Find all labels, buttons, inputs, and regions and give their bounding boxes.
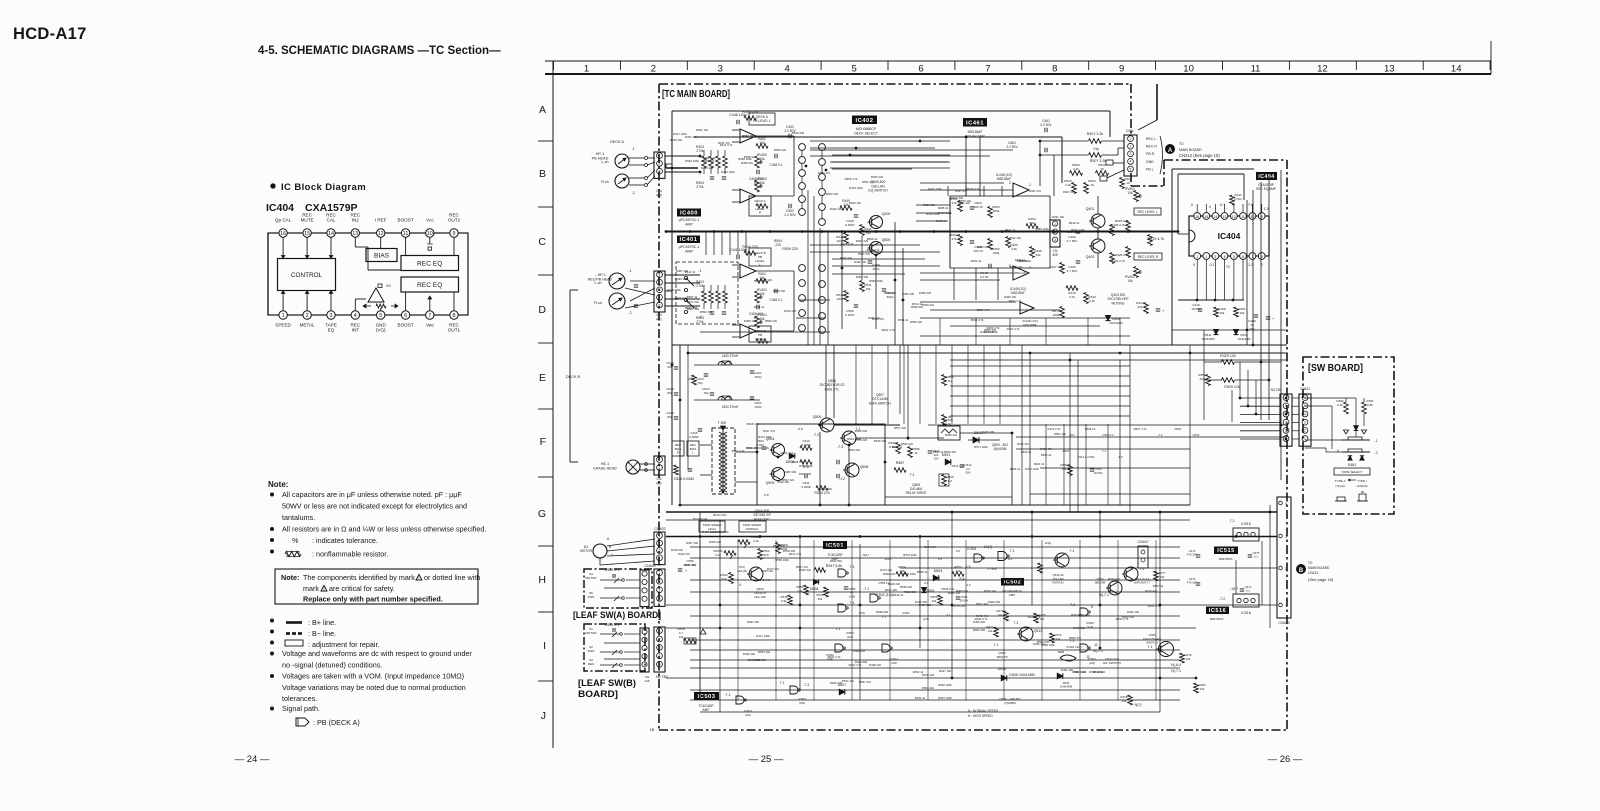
svg-text:R521 22k: R521 22k (842, 679, 855, 683)
svg-text:R507 4.7k: R507 4.7k (1134, 427, 1147, 431)
svg-text:R552 330: R552 330 (700, 310, 713, 314)
D502 diode (973, 437, 979, 443)
svg-text:D504: D504 (934, 569, 943, 573)
svg-text:4: 4 (739, 583, 741, 587)
IC516 label (1206, 607, 1229, 615)
R536 res (896, 443, 901, 454)
wire right section verticals (1039, 141, 1041, 186)
IC461 label (963, 118, 987, 127)
svg-text:-6.8: -6.8 (763, 493, 769, 497)
svg-text:0.0068: 0.0068 (801, 485, 811, 489)
C473 cap (1196, 582, 1201, 584)
svg-text:−: − (611, 562, 613, 566)
svg-text:G.4: G.4 (1008, 557, 1013, 561)
svg-text:2: 2 (306, 313, 309, 319)
svg-text:DOLBY AMP: DOLBY AMP (965, 134, 985, 138)
gate low1 (736, 696, 744, 704)
wire rail y628 (666, 627, 1196, 629)
svg-text:R519 330: R519 330 (783, 549, 796, 553)
svg-text:R500 330: R500 330 (855, 429, 868, 433)
svg-text:R527 47k: R527 47k (796, 565, 809, 569)
svg-text:FWD: FWD (588, 595, 596, 599)
marker A to main board (1166, 145, 1175, 154)
svg-text:PB R: PB R (1146, 152, 1155, 156)
R587 res (894, 468, 906, 473)
svg-text:10 50V: 10 50V (960, 599, 969, 603)
svg-text:R552 330: R552 330 (904, 590, 917, 594)
svg-text:Vcc: Vcc (426, 218, 434, 223)
R478 res (1004, 611, 1009, 621)
svg-text:R: R (677, 451, 679, 455)
grid ruler bottom line (545, 73, 1491, 75)
svg-text:D506 1N4148M: D506 1N4148M (1009, 673, 1034, 677)
svg-text:56p: 56p (667, 391, 672, 395)
svg-text:S481: S481 (1348, 463, 1356, 467)
svg-text:R597 100k: R597 100k (938, 696, 952, 700)
wire amp drops (705, 232, 707, 256)
svg-text:2: 2 (1205, 255, 1207, 259)
svg-text:R464 100k: R464 100k (980, 330, 994, 334)
svg-text:mark: mark (303, 584, 319, 593)
R530 res (692, 375, 697, 385)
svg-text:IC502: IC502 (1004, 580, 1021, 586)
R534c res (816, 486, 828, 491)
svg-text:R428 2.7k: R428 2.7k (1115, 253, 1130, 257)
svg-text:R545 4.7k: R545 4.7k (967, 187, 980, 191)
svg-text:R512 4.7k: R512 4.7k (732, 449, 745, 453)
svg-text:7.1: 7.1 (882, 615, 886, 619)
svg-text:10k: 10k (1127, 279, 1133, 283)
TC MAIN BOARD outline left (658, 84, 660, 730)
wire rail y712 (700, 711, 1160, 713)
Q507 transistor (842, 431, 856, 445)
svg-text:47k: 47k (952, 237, 957, 241)
svg-text:N(-7.1: N(-7.1 (1093, 649, 1103, 653)
svg-text:1: 1 (659, 629, 661, 633)
svg-text:1N4148M: 1N4148M (1060, 685, 1073, 689)
R559 res (1068, 465, 1073, 476)
head L-ch DECK B (609, 273, 625, 289)
wire CN400 out (665, 155, 700, 157)
svg-text:R509 220: R509 220 (782, 247, 798, 251)
C466b cap (1076, 260, 1081, 262)
svg-text:R432 10k: R432 10k (1127, 610, 1140, 614)
svg-text:D510: D510 (998, 667, 1007, 671)
svg-text:CN: CN (656, 189, 662, 193)
svg-text:R529 100k: R529 100k (715, 530, 729, 534)
svg-text:R553 10k: R553 10k (758, 650, 771, 654)
svg-text:No TB2: No TB2 (656, 675, 668, 679)
svg-text:-6.9: -6.9 (924, 581, 929, 585)
svg-text:C545 0.1: C545 0.1 (605, 623, 620, 627)
svg-text:F: F (540, 436, 546, 448)
gate mid2 (882, 644, 890, 652)
Q511 transistor (1055, 553, 1069, 567)
C522 cap (710, 392, 715, 394)
svg-text:T2: T2 (1226, 265, 1230, 269)
svg-text:C544 0.1: C544 0.1 (605, 568, 620, 572)
svg-text:R521 22k: R521 22k (958, 201, 971, 205)
marker B to main board (1297, 565, 1306, 574)
svg-text:2.2 50V: 2.2 50V (1006, 145, 1018, 149)
svg-text:R543 4.7k: R543 4.7k (758, 578, 771, 582)
wire rail y505 (680, 504, 1190, 506)
svg-text:R578 100k: R578 100k (902, 572, 916, 576)
leaf B links (624, 633, 640, 635)
REC EQ block upper (401, 256, 459, 271)
svg-text:3: 3 (718, 64, 723, 75)
D510 diode (1001, 675, 1007, 681)
R547 res (815, 568, 826, 573)
svg-text:R495 22k: R495 22k (761, 569, 774, 573)
R511 res (860, 281, 865, 292)
D507 diode (839, 689, 845, 695)
svg-text:R557 47k: R557 47k (859, 680, 872, 684)
connector CN5 (1124, 135, 1137, 176)
svg-text:C532 2.2: C532 2.2 (1102, 433, 1114, 437)
IC404 block op-amp (368, 288, 384, 302)
wire rail y678 (666, 677, 1196, 679)
svg-text:10k: 10k (1220, 311, 1225, 315)
svg-text:R546 220: R546 220 (774, 148, 787, 152)
IC503 label (694, 692, 719, 700)
svg-text:6.5: 6.5 (938, 557, 942, 561)
connector CN440 pair (640, 570, 649, 607)
svg-text:6.4: 6.4 (960, 577, 965, 581)
svg-text:R577 220: R577 220 (894, 426, 907, 430)
svg-text:R432 10k: R432 10k (854, 260, 867, 264)
svg-text:-1.2: -1.2 (1247, 263, 1253, 267)
svg-text:R584 1k: R584 1k (1010, 467, 1021, 471)
svg-text:4: 4 (659, 296, 661, 300)
svg-text:1: 1 (1029, 183, 1031, 187)
svg-text:R507 10k: R507 10k (687, 307, 700, 311)
svg-text:R590 22k: R590 22k (911, 305, 924, 309)
CONTROL block (278, 259, 336, 291)
R479 res (1180, 653, 1185, 663)
svg-text:C448 0.1: C448 0.1 (770, 298, 783, 302)
svg-text:47k: 47k (956, 569, 961, 573)
C536 cap (1090, 468, 1095, 470)
svg-text:G: G (538, 508, 546, 520)
RY400 relay (938, 426, 960, 440)
svg-text:R405 330: R405 330 (744, 319, 757, 323)
R465 res (1006, 237, 1011, 248)
svg-text:R594 220: R594 220 (1014, 271, 1027, 275)
C408b cap (854, 214, 859, 216)
svg-text:MOTOR: MOTOR (585, 631, 597, 635)
wire mesh top c (916, 204, 950, 206)
CN447 connector (1138, 546, 1148, 568)
svg-text:R407 220: R407 220 (1074, 670, 1087, 674)
C561 cap (1044, 148, 1046, 153)
svg-text:R483 330: R483 330 (784, 470, 797, 474)
svg-text:11: 11 (1086, 655, 1090, 659)
svg-text:8.2: 8.2 (948, 479, 953, 483)
svg-text:3: 3 (659, 170, 661, 174)
svg-text:R587: R587 (896, 461, 905, 465)
connector CN440 tall (1277, 497, 1291, 618)
svg-text:50V: 50V (965, 471, 970, 475)
junction dots (689, 230, 692, 233)
svg-text:R598 1k: R598 1k (744, 155, 755, 159)
svg-text:8: 8 (453, 313, 456, 319)
svg-text:D: D (538, 304, 546, 316)
wire IC404 pin top stubs (1196, 204, 1198, 213)
R538 res (942, 415, 947, 426)
svg-text:C512 2.2 50V: C512 2.2 50V (1077, 455, 1094, 459)
svg-text:Q505: Q505 (766, 481, 775, 485)
svg-text:R442 1k: R442 1k (685, 270, 696, 274)
Q504 transistor (772, 444, 785, 457)
svg-text:4: 4 (1224, 255, 1226, 259)
svg-text:47k: 47k (952, 201, 957, 205)
test pad column 2 (819, 144, 826, 151)
wire sw feeds (1240, 397, 1280, 399)
bias osc box (757, 424, 885, 505)
svg-text:9: 9 (453, 231, 456, 237)
svg-text:402: 402 (656, 481, 662, 485)
C511 cap (804, 474, 806, 479)
wire pad drops (807, 190, 809, 345)
svg-text:R515 330: R515 330 (874, 439, 887, 443)
svg-text:2.2 50V: 2.2 50V (1040, 123, 1052, 127)
svg-text:7.1: 7.1 (1014, 621, 1019, 625)
svg-text:R436 22k: R436 22k (702, 159, 715, 163)
IC404 top pins 16-9 (279, 229, 287, 237)
svg-text:+: + (611, 553, 613, 557)
grid row ticks (538, 140, 553, 142)
svg-text:R404 220: R404 220 (742, 110, 758, 114)
svg-text:14: 14 (328, 231, 334, 237)
svg-text:R501 10k: R501 10k (696, 128, 709, 132)
svg-text:M5F7807L: M5F7807L (1219, 557, 1234, 561)
svg-text:REC: REC (588, 662, 595, 666)
svg-text:R557 47k: R557 47k (955, 189, 968, 193)
R545 res (788, 595, 793, 605)
R428 res (1144, 303, 1149, 314)
svg-text:R421 4.7k: R421 4.7k (1028, 615, 1041, 619)
IC502 label (1001, 578, 1024, 586)
IC501 gate1 (838, 569, 846, 577)
svg-text:2: 2 (659, 580, 661, 584)
svg-text:R500 22k: R500 22k (840, 256, 853, 260)
svg-text:4: 4 (1285, 502, 1287, 506)
svg-text:100 10: 100 10 (973, 205, 983, 209)
wire rail y520 (666, 519, 1190, 521)
svg-text:R469 330: R469 330 (754, 279, 767, 283)
svg-text:R430 47k: R430 47k (675, 277, 688, 281)
svg-text:7.1: 7.1 (780, 681, 785, 685)
svg-text:2: 2 (659, 637, 661, 641)
svg-text:10k: 10k (1127, 191, 1133, 195)
svg-text:2.2k: 2.2k (1337, 403, 1343, 407)
svg-text:R540 220: R540 220 (871, 175, 884, 179)
svg-text:— 26 —: — 26 — (1268, 754, 1303, 765)
svg-text:1: 1 (1130, 137, 1132, 141)
svg-text:L-ch: L-ch (595, 281, 602, 285)
svg-text:R421 4.7k: R421 4.7k (841, 242, 854, 246)
svg-text:R473 22k: R473 22k (880, 568, 893, 572)
svg-text:0.0082: 0.0082 (689, 435, 699, 439)
C425 cap (698, 428, 703, 430)
svg-text:1: 1 (659, 571, 661, 575)
R420 res (1084, 293, 1089, 304)
svg-text:R543 100k: R543 100k (847, 437, 861, 441)
svg-text:R469 330: R469 330 (988, 600, 1001, 604)
svg-text:R578 100k: R578 100k (667, 288, 681, 292)
svg-text:TAPE SELECT: TAPE SELECT (1342, 470, 1363, 474)
svg-text:CN440: CN440 (1278, 621, 1289, 625)
TC MAIN BOARD outline top right (1164, 159, 1287, 161)
svg-text:C555 4.7: C555 4.7 (878, 581, 890, 585)
leaf A links (626, 579, 640, 581)
svg-text:10k: 10k (1186, 657, 1191, 661)
svg-text:1: 1 (1285, 604, 1287, 608)
gate ic502b (1080, 608, 1088, 616)
svg-text:BOOST: BOOST (398, 323, 414, 328)
svg-text:T 500: T 500 (718, 421, 727, 425)
svg-text:R415 100k: R415 100k (928, 187, 942, 191)
svg-text:3: 3 (330, 313, 333, 319)
svg-text:AMP: AMP (703, 708, 710, 712)
svg-text:R532 1k: R532 1k (1017, 259, 1028, 263)
svg-text:R452 330: R452 330 (902, 292, 915, 296)
svg-text:AMP: AMP (685, 223, 693, 227)
svg-text:R443 4.7k: R443 4.7k (1007, 327, 1020, 331)
svg-text:1: 1 (659, 154, 661, 158)
svg-text:8: 8 (1052, 64, 1057, 75)
svg-text:4: 4 (659, 654, 661, 658)
svg-text:RELAY DRIVE: RELAY DRIVE (906, 491, 927, 495)
svg-text:470 10V: 470 10V (1187, 553, 1198, 557)
svg-text:R409 22k: R409 22k (709, 540, 722, 544)
notes safety box (275, 569, 478, 604)
svg-text:R450 1k: R450 1k (1021, 450, 1032, 454)
wire rail y512 (666, 511, 1277, 513)
svg-text:H: H (538, 574, 546, 586)
connector CN405 (1050, 220, 1060, 247)
R407 res (1089, 139, 1102, 144)
svg-text:R-ch: R-ch (601, 180, 609, 184)
svg-text:IC404: IC404 (266, 202, 294, 214)
svg-text:2.2k: 2.2k (1065, 183, 1071, 187)
svg-text:R442 1k: R442 1k (893, 593, 904, 597)
svg-text:R529 330: R529 330 (799, 472, 812, 476)
svg-text:Vee: Vee (426, 323, 434, 328)
svg-text:(N)4(BM: (N)4(BM (1004, 701, 1016, 705)
svg-text:HCD-A17: HCD-A17 (13, 25, 87, 43)
svg-text:R442 1k: R442 1k (915, 696, 926, 700)
svg-text:no -signal (detuned) condition: no -signal (detuned) conditions. (282, 661, 382, 670)
svg-text:DECK A: DECK A (610, 140, 624, 144)
svg-text:[LEAF SW(B): [LEAF SW(B) (578, 678, 636, 688)
C512 cap (960, 464, 965, 466)
svg-text:R596 1k: R596 1k (1041, 453, 1052, 457)
R478b res (1128, 695, 1133, 705)
svg-text:N : NORMAL SPEED: N : NORMAL SPEED (968, 709, 999, 713)
svg-text:400: 400 (656, 194, 662, 198)
svg-text:0.0047: 0.0047 (845, 313, 855, 317)
RV402 pot (1134, 267, 1139, 278)
svg-text:R492 220: R492 220 (883, 572, 896, 576)
svg-text:Q506: Q506 (813, 415, 822, 419)
svg-text:A: A (539, 104, 546, 116)
REC BIAS R box (672, 441, 684, 456)
svg-text:R438 100k: R438 100k (1041, 643, 1055, 647)
IC501 gate3 (835, 644, 843, 652)
TC MAIN BOARD outline bottom (659, 729, 1287, 731)
svg-text:5: 5 (851, 64, 856, 75)
svg-text:R455 220: R455 220 (973, 620, 986, 624)
svg-text:GND: GND (1146, 160, 1154, 164)
svg-text:IC501: IC501 (967, 547, 977, 551)
svg-text:R546 220: R546 220 (773, 544, 786, 548)
svg-text:10k: 10k (932, 599, 937, 603)
svg-text:R427 10k: R427 10k (1049, 265, 1063, 269)
svg-text:R433 10k: R433 10k (757, 446, 770, 450)
svg-text:R403 330: R403 330 (856, 275, 869, 279)
C461 cap (1044, 128, 1046, 133)
svg-text:R415 220: R415 220 (784, 309, 797, 313)
svg-text:16: 16 (1100, 167, 1104, 171)
R520 res (1072, 183, 1077, 194)
R522 res (1096, 171, 1109, 176)
C472 cap (1196, 554, 1201, 556)
opamp IC461a (1013, 183, 1029, 197)
IC404 block outline (268, 233, 468, 315)
svg-text:CN5:: CN5: (1126, 129, 1134, 133)
svg-text:15: 15 (1204, 215, 1208, 219)
wire cn421 mid (1292, 397, 1299, 399)
svg-text:2.2k: 2.2k (1073, 167, 1079, 171)
svg-text:3: 3 (1285, 421, 1287, 425)
svg-text:68k: 68k (1030, 221, 1035, 225)
R573 res (776, 543, 781, 554)
svg-text:10k: 10k (759, 181, 765, 185)
R500 res (1070, 171, 1083, 176)
R556 res (1038, 563, 1043, 573)
C421b cap (1266, 316, 1271, 318)
test pad column 1 (799, 144, 806, 151)
svg-text:R526 10k: R526 10k (849, 201, 862, 205)
R425 res (1110, 225, 1115, 236)
svg-text:150p: 150p (755, 405, 762, 409)
LEAF SW(A) BOARD outline (584, 569, 652, 608)
svg-text:BOARD]: BOARD] (578, 689, 618, 699)
svg-text:R519 330: R519 330 (792, 131, 805, 135)
DECK B bracket (569, 290, 571, 462)
svg-text:270k: 270k (696, 284, 704, 288)
svg-text:IC404: IC404 (1218, 231, 1241, 241)
REC EQ block lower (401, 277, 459, 292)
svg-text:-0.1: -0.1 (1219, 203, 1225, 207)
R550b res (804, 585, 809, 595)
svg-text:N(-6.4: N(-6.4 (1171, 663, 1181, 667)
R460 res (958, 235, 963, 246)
svg-text:R441 47k: R441 47k (1017, 442, 1030, 446)
R534 res (800, 446, 812, 451)
svg-text:IC516: IC516 (1209, 608, 1226, 614)
svg-text:R474 100k: R474 100k (758, 435, 772, 439)
opamp IC461b (1013, 266, 1029, 280)
wire R429 links (1204, 361, 1222, 363)
svg-text:R451 330: R451 330 (1061, 668, 1074, 672)
svg-text:R487 1k: R487 1k (687, 295, 698, 299)
svg-text:R457 10k: R457 10k (685, 135, 698, 139)
svg-text:D501: D501 (1175, 427, 1182, 431)
svg-text:IC404: IC404 (1258, 174, 1274, 180)
